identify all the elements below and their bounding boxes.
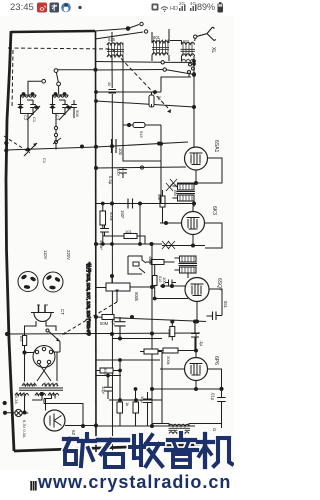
series cap 150 <box>128 199 133 209</box>
svg-text:150*: 150* <box>120 210 125 219</box>
schematic frame bottom border <box>14 444 215 451</box>
svg-text:30: 30 <box>107 82 111 86</box>
resistor 510 <box>153 276 158 286</box>
resistor 100 h <box>124 234 137 239</box>
wire V1 grid drop <box>193 64 195 147</box>
svg-text:4.7k: 4.7k <box>148 256 152 263</box>
gang2 bottom bar <box>53 113 66 115</box>
resistor 1k <box>117 402 123 413</box>
junction <box>81 145 84 148</box>
svg-text:6SA1: 6SA1 <box>213 140 219 152</box>
coil L1 gang1 <box>21 94 37 96</box>
junction <box>158 142 161 145</box>
resistor 890 <box>100 368 113 373</box>
wire y375 <box>96 375 121 377</box>
svg-text:50M: 50M <box>100 321 109 326</box>
wire rail y317 <box>96 317 206 322</box>
wire switch to gang1 <box>28 81 42 94</box>
wire lamp leads <box>6 396 29 413</box>
svg-text:“牡丹”105, 106, 107, 108, 109 (“: “牡丹”105, 106, 107, 108, 109 (“552-6”) <box>85 262 92 335</box>
svg-text:XL: XL <box>210 47 216 53</box>
wire V3 right loop <box>209 289 222 316</box>
wire rail y146 <box>6 142 188 150</box>
wire V4 bottom <box>195 381 197 390</box>
wire tube V1 bottom <box>195 170 197 183</box>
wire osc coil leads <box>112 29 169 61</box>
cap 0.1u <box>115 317 126 339</box>
svg-text:460k*: 460k* <box>99 240 104 251</box>
IF transformer B1 <box>178 184 195 190</box>
watermark url <box>38 472 231 493</box>
wire links mid <box>103 204 145 245</box>
wire y389 <box>152 388 222 390</box>
wire fuse down to transformer <box>25 352 58 382</box>
wire y244 <box>96 243 162 245</box>
trimmer C5 <box>50 95 56 114</box>
gang1 bottom bar <box>21 113 34 115</box>
tube V5 6Z4 <box>44 410 65 431</box>
svg-text:0.5µ: 0.5µ <box>108 176 113 185</box>
cap small <box>100 225 109 236</box>
svg-text:.1µ: .1µ <box>199 340 204 346</box>
svg-text:0.2A: 0.2A <box>14 396 18 404</box>
svg-text:6P6: 6P6 <box>213 356 219 365</box>
variable arrow gang2 <box>59 106 72 120</box>
tube V4 6P6 <box>185 358 208 381</box>
wire heater rail y427 <box>96 425 195 427</box>
socket CZ1 110V <box>18 272 38 292</box>
resistor 50M <box>102 315 114 320</box>
tube V3 6SQ7 <box>185 278 209 302</box>
wire osc grid y92 <box>96 77 191 92</box>
wire rectifier bottom <box>65 425 96 427</box>
junction below fuse <box>24 346 26 353</box>
wire cathode line y168 <box>96 167 186 168</box>
pilot lamp XD <box>15 409 22 416</box>
wire osc coil drop <box>123 57 161 161</box>
wire tube V1 top <box>193 143 195 147</box>
svg-text:500k: 500k <box>109 212 114 221</box>
main cap C1B <box>59 100 68 115</box>
svg-text:6K3: 6K3 <box>211 206 217 215</box>
svg-text:551: 551 <box>223 301 228 309</box>
svg-text:C2: C2 <box>23 115 28 121</box>
cap .01u out <box>217 398 226 402</box>
wire to antenna terminal <box>128 25 139 29</box>
cap 10u a <box>104 375 112 399</box>
wire tube V1 right loop <box>207 158 222 183</box>
coil hatch T3 <box>183 43 192 56</box>
coil hatch power transformer <box>17 383 57 397</box>
svg-text:500k: 500k <box>167 329 172 338</box>
svg-text:2G: 2G <box>179 1 186 6</box>
resistor 51 osc <box>149 95 154 107</box>
status bar icons <box>37 1 223 13</box>
svg-text:220V: 220V <box>66 250 71 260</box>
resistor 500k <box>170 327 175 337</box>
svg-text:C1: C1 <box>42 158 47 164</box>
svg-text:500k: 500k <box>134 292 139 302</box>
switch K <box>49 331 61 342</box>
schematic frame top border <box>11 31 95 32</box>
wire bus to osc terminals <box>96 61 161 64</box>
resistor 15k <box>133 402 139 413</box>
svg-text:6.3V 0.3A: 6.3V 0.3A <box>22 420 27 438</box>
wire selector cross <box>37 364 51 382</box>
socket CZ2 220V <box>43 272 63 292</box>
resistor 150k <box>144 349 158 354</box>
wire plug right leg <box>46 321 56 331</box>
schematic frame left border <box>6 31 14 451</box>
volume pot 500k <box>106 283 130 291</box>
padder cap 508 <box>71 100 77 115</box>
power plug CT <box>31 313 54 322</box>
svg-text:10µ*: 10µ* <box>101 386 106 395</box>
svg-text:BX: BX <box>19 336 24 342</box>
IF trimmer arrows <box>166 179 177 191</box>
svg-text:51: 51 <box>157 96 162 101</box>
svg-text:1k: 1k <box>125 402 130 406</box>
svg-text:4G: 4G <box>190 1 197 6</box>
wire fuse to selector pin <box>26 352 35 354</box>
coil L2 gang2 <box>53 94 69 96</box>
wire tap joins <box>165 56 195 81</box>
wire K to selector <box>53 342 61 353</box>
resistor 515 osc <box>133 123 145 128</box>
wire pot top <box>96 245 152 427</box>
wire plug left leg <box>25 321 37 336</box>
wire rail y334 <box>7 333 200 334</box>
main vertical bus x112 <box>111 56 114 452</box>
svg-text:110V: 110V <box>43 250 48 260</box>
wire V4 left <box>160 351 189 370</box>
wire y338 <box>112 338 162 340</box>
trimmer C2 <box>18 95 24 114</box>
cap 25u <box>207 312 223 321</box>
svg-text:.01µ: .01µ <box>211 392 216 401</box>
wire antenna to coil <box>170 38 195 61</box>
band switch K1 lever <box>54 69 58 73</box>
dashed gang link diagonal <box>112 49 168 108</box>
svg-text:508: 508 <box>75 110 80 117</box>
wire V2 right loop <box>205 223 223 248</box>
wire V4 top <box>195 334 197 358</box>
svg-text:100: 100 <box>118 148 123 156</box>
svg-text:300k: 300k <box>166 356 171 365</box>
center tap <box>40 392 43 395</box>
svg-text:510: 510 <box>158 276 162 282</box>
svg-text:100*: 100* <box>116 168 121 177</box>
svg-text:Ω: Ω <box>212 428 217 431</box>
power transformer B3 primary <box>22 384 36 386</box>
dashed shield box top <box>8 48 112 49</box>
resistor 51k IF <box>160 196 165 207</box>
output transformer B4 <box>169 424 189 426</box>
resistor 500k v <box>100 211 106 225</box>
svg-text:C1: C1 <box>32 117 37 123</box>
coil hatch T2 <box>154 40 169 55</box>
dashed link pot to switch <box>60 302 117 336</box>
series cap 100 <box>112 139 117 153</box>
transformer core <box>19 388 63 390</box>
IF2 trimmer arrows <box>162 241 175 249</box>
fuse BX <box>23 336 27 346</box>
osc coil T2 <box>152 41 168 43</box>
tube V1 6SA1 <box>185 147 208 170</box>
wire y246 <box>162 245 205 247</box>
wire gang2 top <box>58 86 60 94</box>
cap 100 det <box>165 280 176 286</box>
resistor 4.7k <box>151 260 164 265</box>
coil hatch T1 <box>109 43 124 57</box>
wire y183 <box>177 182 207 184</box>
junction <box>126 27 130 31</box>
coil hatch output transformer <box>173 425 185 428</box>
dashed gang link diagonal lower <box>4 136 30 153</box>
terminal <box>140 22 143 25</box>
voltage selector socket CZ3 <box>33 346 55 368</box>
tube V2 6K3 <box>182 212 205 235</box>
wire second top <box>95 32 143 39</box>
main vertical bus x96 <box>95 31 98 452</box>
terminal <box>144 30 147 33</box>
wire y360 <box>96 359 160 361</box>
variable cap C1A arrow <box>24 143 37 156</box>
cap 100* y165 <box>119 168 127 179</box>
svg-text:.1µ*: .1µ* <box>111 318 116 326</box>
svg-text:515: 515 <box>139 131 144 138</box>
antenna coil T1 <box>107 43 123 45</box>
transformer secondary <box>15 393 29 395</box>
wire V3 left grid <box>160 285 185 287</box>
svg-text:600: 600 <box>173 190 177 196</box>
cap .1u coupling <box>191 322 199 351</box>
wire V3 bottom <box>196 302 198 322</box>
jack CK <box>128 256 146 274</box>
main cap C1A <box>27 100 36 115</box>
wire V4 right loop <box>208 369 222 428</box>
svg-text:601: 601 <box>153 35 161 40</box>
svg-text:|||: ||| <box>30 480 37 490</box>
wire gang legs <box>28 100 74 150</box>
svg-text:602: 602 <box>183 40 189 44</box>
IF transformer B2 <box>180 256 197 262</box>
svg-text:101: 101 <box>125 229 132 234</box>
status bar <box>0 0 234 16</box>
wire mid components y203 <box>96 203 194 205</box>
svg-text:51k: 51k <box>157 194 161 200</box>
terminals antenna taps <box>189 63 192 66</box>
wire V2 left <box>160 222 182 224</box>
wire B2 leads <box>175 258 197 278</box>
variable arrow gang1 <box>27 106 40 120</box>
border junctions <box>5 141 8 144</box>
resistor 300k <box>163 348 178 353</box>
wire V2 bottom <box>192 235 194 246</box>
wire top bus to antenna coil <box>95 29 128 32</box>
antenna coil T3 <box>182 42 195 44</box>
wire rectifier top <box>44 396 83 428</box>
terminal chain <box>54 126 57 129</box>
svg-text:CT: CT <box>60 309 65 315</box>
wire osc line y101 <box>96 101 194 107</box>
wire B1 to V2 <box>173 186 195 211</box>
cap 10u b <box>143 392 152 409</box>
watermark text 矿石收音机 as paths <box>64 433 232 467</box>
svg-text:K: K <box>63 332 68 335</box>
dashed shield box left <box>12 50 13 108</box>
wire links <box>109 352 162 426</box>
svg-text:HD: HD <box>170 6 178 12</box>
wire det lower <box>154 298 188 300</box>
antenna XL <box>197 27 216 41</box>
